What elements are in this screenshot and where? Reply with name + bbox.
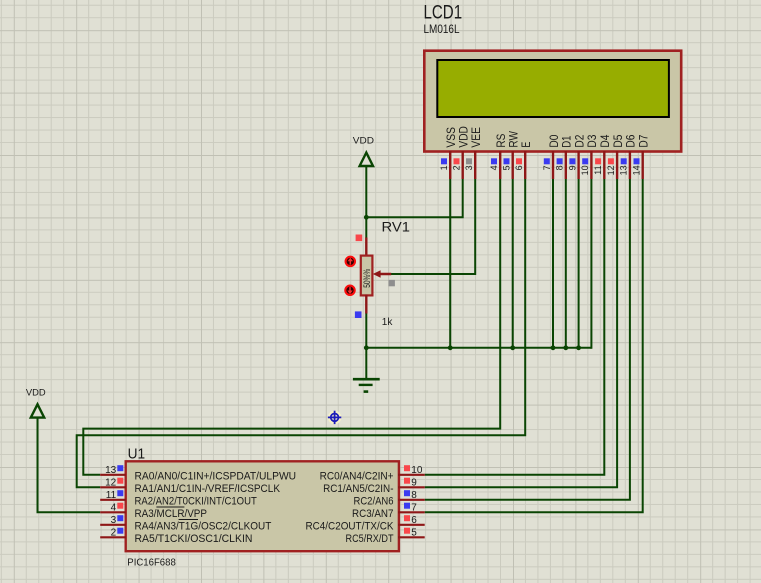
power symbol VDD (top, feeds RV1 / LCD VDD) — [353, 135, 374, 166]
svg-text:VDD: VDD — [26, 387, 46, 398]
svg-text:4: 4 — [111, 502, 117, 513]
LCD1 pin 3 (VEE) — [464, 127, 483, 179]
svg-text:D7: D7 — [637, 134, 651, 147]
svg-text:6: 6 — [411, 515, 417, 526]
RV1 bottom pin stub — [365, 295, 367, 314]
junction: D2 on ground bus — [576, 345, 581, 350]
svg-text:3: 3 — [464, 165, 474, 170]
svg-text:RA2/AN2/T0CKI/INT/C1OUT: RA2/AN2/T0CKI/INT/C1OUT — [135, 495, 258, 507]
U1 MCLR active-low overline — [156, 506, 184, 508]
LCD display LCD1 (LM016L) — [424, 2, 682, 152]
wire: LCD pin 14 (D7) to PIC pin 7 (RC3) — [425, 179, 643, 512]
wire: VDD arrow to PIC pin 4 (RA3/MCLR/VPP) — [38, 418, 101, 513]
junction: RW on ground bus — [510, 345, 515, 350]
RV1 wiper state square (gray) — [389, 280, 395, 286]
LCD1 pin 6 (E) — [514, 142, 533, 179]
U1 pin 7 (RC3) — [352, 502, 425, 520]
svg-text:RA0/AN0/C1IN+/ICSPDAT/ULPWU: RA0/AN0/C1IN+/ICSPDAT/ULPWU — [135, 470, 297, 482]
wire: LCD pin 13 (D6) to PIC pin 8 (RC2) — [425, 179, 630, 500]
wire: LCD pin 7 (D0) to ground bus — [552, 179, 554, 348]
wire: LCD pin 9 (D2) to ground bus — [578, 179, 580, 348]
svg-text:13: 13 — [105, 465, 117, 476]
wire: LCD pin 11 (D4) to PIC pin 10 (RC0) — [425, 179, 605, 475]
wire: VDD rail from power arrow down to junction and over to LCD pin 2 (VDD) — [365, 166, 367, 217]
svg-text:12: 12 — [606, 165, 616, 175]
RV1 wiper arrow and pin — [373, 270, 381, 277]
power symbol VDD (bottom left, feeds PIC MCLR) — [26, 387, 46, 417]
svg-text:RA5/T1CKI/OSC1/CLKIN: RA5/T1CKI/OSC1/CLKIN — [135, 533, 253, 545]
U1 T1G active-low overline — [179, 519, 198, 521]
LCD1 pin 4 (RS) — [489, 134, 508, 179]
svg-text:14: 14 — [632, 165, 642, 175]
svg-text:50%%: 50%% — [362, 269, 372, 288]
svg-text:2: 2 — [111, 527, 117, 538]
RV1 state square (bottom) — [355, 311, 362, 318]
LCD1 pin 10 (D3) — [580, 134, 599, 179]
LCD1 pin 5 (RW) — [502, 131, 521, 179]
origin marker (blue crosshair) — [328, 411, 342, 425]
U1 pin 3 (RA4) — [100, 515, 271, 533]
wire: LCD pin 5 (RW) to ground bus — [512, 179, 514, 348]
wire: RV1 bottom pin down to ground junction — [365, 313, 367, 348]
svg-text:VEE: VEE — [469, 127, 483, 148]
svg-text:7: 7 — [411, 502, 417, 513]
svg-text:RV1: RV1 — [382, 219, 411, 235]
svg-text:PIC16F688: PIC16F688 — [127, 556, 176, 568]
svg-text:2: 2 — [452, 165, 462, 170]
LCD1 pin 1 (VSS) — [439, 127, 458, 179]
LCD1 pin 11 (D4) — [593, 134, 612, 179]
wire: RV1 wiper to LCD pin 3 (VEE) — [391, 179, 475, 274]
svg-text:13: 13 — [619, 165, 629, 175]
svg-text:RC4/C2OUT/TX/CK: RC4/C2OUT/TX/CK — [306, 520, 395, 532]
LCD1 pin 13 (D6) — [619, 134, 638, 179]
svg-text:LCD1: LCD1 — [424, 2, 463, 24]
svg-text:10: 10 — [580, 165, 590, 175]
U1 pin 8 (RC2) — [354, 490, 425, 508]
wire: LCD pin 6 (E) to PIC pin 12 (RA1) — [77, 179, 526, 487]
svg-text:8: 8 — [411, 490, 417, 501]
LCD1 body — [424, 51, 681, 152]
wire: RV1 top pin to VDD junction — [365, 217, 367, 238]
U1 body — [126, 461, 399, 551]
U1 pin 10 (RC0) — [320, 465, 425, 483]
ground symbol below RV1 — [353, 379, 380, 391]
svg-text:5: 5 — [502, 165, 512, 170]
svg-text:E: E — [519, 142, 533, 148]
junction: D1 on ground bus — [563, 345, 568, 350]
svg-text:RA3/MCLR/VPP: RA3/MCLR/VPP — [135, 508, 208, 520]
svg-text:RC1/AN5/C2IN-: RC1/AN5/C2IN- — [323, 483, 394, 495]
LCD1 screen — [437, 60, 669, 117]
svg-text:VDD: VDD — [353, 135, 374, 146]
potentiometer RV1 1k — [345, 219, 410, 329]
svg-text:RC2/AN6: RC2/AN6 — [354, 495, 394, 507]
svg-text:LM016L: LM016L — [424, 24, 461, 36]
svg-text:1k: 1k — [382, 317, 394, 328]
wire: LCD pin 10 (D3) to ground bus end — [590, 179, 592, 349]
wire: LCD pin 4 (RS) to PIC pin 13 (RA0) — [83, 179, 500, 475]
svg-text:11: 11 — [593, 165, 603, 174]
RV1 body — [361, 256, 373, 296]
LCD1 pin 14 (D7) — [632, 134, 651, 179]
junction: VDD rail at RV1 top — [364, 215, 369, 220]
svg-text:3: 3 — [111, 515, 117, 526]
svg-text:9: 9 — [411, 477, 417, 488]
svg-text:7: 7 — [542, 165, 552, 170]
svg-text:RC3/AN7: RC3/AN7 — [352, 508, 394, 520]
U1 pin 5 (RC5) — [346, 527, 425, 545]
RV1 state square (top) — [356, 235, 363, 242]
U1 pin 2 (RA5) — [100, 527, 252, 545]
svg-text:11: 11 — [106, 490, 117, 501]
LCD1 pin 2 (VDD) — [452, 126, 471, 179]
svg-text:5: 5 — [411, 527, 417, 538]
svg-text:U1: U1 — [128, 446, 146, 463]
svg-text:RA1/AN1/C1IN-/VREF/ICSPCLK: RA1/AN1/C1IN-/VREF/ICSPCLK — [135, 483, 281, 495]
LCD1 pin 8 (D1) — [555, 135, 574, 179]
wire: LCD pin 12 (D5) to PIC pin 9 (RC1) — [425, 179, 617, 487]
U1 pin 12 (RA1) — [100, 477, 280, 495]
LCD1 pin 7 (D0) — [542, 134, 561, 179]
svg-text:RC5/RX/DT: RC5/RX/DT — [346, 533, 394, 545]
svg-text:8: 8 — [555, 165, 565, 170]
U1 pin 11 (RA2) — [100, 490, 257, 508]
svg-text:6: 6 — [514, 165, 524, 170]
RV1 decrement button — [345, 286, 354, 295]
RV1 increment button — [346, 257, 355, 266]
svg-text:D3: D3 — [585, 134, 599, 147]
svg-text:RA4/AN3/T1G/OSC2/CLKOUT: RA4/AN3/T1G/OSC2/CLKOUT — [135, 520, 272, 532]
LCD1 pin 9 (D2) — [567, 134, 586, 179]
U1 pin 4 (RA3) — [100, 502, 207, 520]
LCD1 pin 12 (D5) — [606, 134, 625, 179]
wire: LCD pin 8 (D1) to ground bus — [565, 179, 567, 348]
U1 pin 6 (RC4) — [306, 515, 425, 533]
svg-text:12: 12 — [105, 477, 117, 488]
U1 pin 13 (RA0) — [100, 465, 296, 483]
wire: LCD pin 1 (VSS) to ground bus — [449, 179, 451, 348]
RV1 top pin stub — [365, 238, 367, 257]
microcontroller U1 (PIC16F688) — [126, 446, 399, 569]
svg-text:4: 4 — [489, 165, 499, 170]
svg-text:9: 9 — [567, 165, 577, 170]
junction: D0 on ground bus — [551, 345, 556, 350]
wire: ground stub down to ground symbol — [365, 348, 367, 378]
U1 pin 9 (RC1) — [323, 477, 425, 495]
junction: VSS on ground bus — [448, 345, 453, 350]
svg-text:RC0/AN4/C2IN+: RC0/AN4/C2IN+ — [320, 470, 394, 482]
wire: ground bus from RV1 bottom to LCD pin 10 (D3) — [366, 347, 591, 349]
svg-text:1: 1 — [439, 165, 449, 170]
svg-text:10: 10 — [411, 465, 423, 476]
junction: ground node at RV1 bottom — [364, 345, 369, 350]
